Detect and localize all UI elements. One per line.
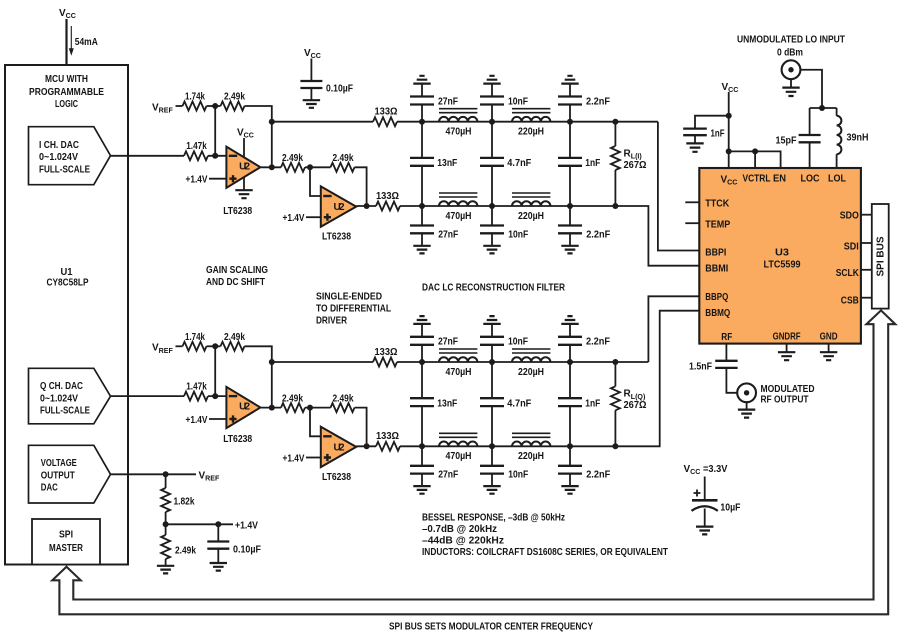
svg-text:LT6238: LT6238: [223, 206, 252, 217]
svg-text:2.49k: 2.49k: [175, 546, 196, 557]
svg-text:I CH. DAC: I CH. DAC: [39, 140, 79, 151]
wire node to 1.82k: [165, 474, 167, 488]
node junction 1.74k/2.49k: [212, 103, 218, 109]
svg-text:SINGLE-ENDED: SINGLE-ENDED: [316, 292, 382, 303]
svg-text:LOGIC: LOGIC: [55, 99, 78, 110]
svg-text:RF OUTPUT: RF OUTPUT: [761, 394, 809, 405]
VOLTAGE OUTPUT DAC tag (pentagon): [29, 445, 111, 503]
svg-text:RF: RF: [721, 332, 732, 343]
svg-text:U3: U3: [775, 248, 789, 259]
SPI bus arrow (SPI MASTER to SPI BUS connector): [52, 310, 895, 614]
svg-text:SDO: SDO: [840, 210, 859, 221]
ground above 10nF cap (I col 492): [483, 76, 500, 84]
node on + rail: [567, 119, 573, 125]
svg-text:U1: U1: [61, 267, 73, 278]
wire feedback to op2 output: [355, 167, 367, 206]
svg-text:1.47k: 1.47k: [186, 141, 207, 152]
wire ground to cap: [569, 84, 571, 97]
wire VCC to op-amp: [243, 138, 245, 161]
resistor 1.74k (Q): [183, 342, 207, 351]
wire 2.49k to output column: [245, 106, 272, 122]
wire I DAC tag to 1.47k: [111, 155, 185, 157]
wire VCC pin up: [728, 92, 730, 168]
pin stub SDO: [861, 214, 872, 216]
ground above 27nF cap (Q col 422): [413, 316, 430, 324]
wire 1.47k to op1 minus input: [208, 395, 226, 397]
resistor 2.49k (divider): [161, 535, 170, 559]
svg-text:27nF: 27nF: [438, 470, 458, 481]
pin stub SDI: [861, 242, 872, 244]
node on - rail: [567, 203, 573, 209]
wire cap to + rail: [491, 105, 493, 122]
wire cap to ground: [421, 474, 423, 486]
node +1.4V: [163, 521, 169, 527]
wire cap to + rail: [421, 345, 423, 362]
svg-text:LOL: LOL: [828, 174, 846, 185]
wire Q- rail to BBMQ: [615, 311, 699, 447]
node VREF: [163, 471, 169, 477]
wire Q+ rail to BBPQ: [648, 296, 699, 362]
resistor 2.49k input (Q stage2): [281, 403, 305, 412]
node on + rail: [489, 119, 495, 125]
wire VREF to R 1.74k: [176, 345, 183, 347]
wire cap to ground: [217, 549, 219, 563]
ground (GNDRF): [778, 352, 795, 360]
svg-text:VCC =3.3V: VCC =3.3V: [684, 464, 728, 476]
wire op2 output to 133R: [356, 205, 376, 207]
svg-text:BBMI: BBMI: [705, 264, 728, 275]
inductor 470uH (I - rail): [439, 201, 477, 206]
svg-text:–44dB @ 220kHz: –44dB @ 220kHz: [422, 536, 504, 547]
svg-text:0~1.024V: 0~1.024V: [40, 394, 78, 405]
wire op2 output to 133R: [356, 445, 376, 447]
capacitor 10nF (bottom, Q col 492): [491, 446, 493, 466]
wire +1.4V to op2 plus input: [306, 457, 321, 459]
svg-text:EN: EN: [773, 174, 786, 185]
ground above 2.2nF cap (Q col 570): [561, 316, 578, 324]
svg-text:54mA: 54mA: [75, 37, 98, 48]
capacitor 0.10uF bypass: [300, 81, 322, 88]
svg-text:SDI: SDI: [844, 241, 859, 252]
capacitor 10nF (top, I col 492): [480, 97, 504, 105]
wire ground to cap: [491, 324, 493, 337]
svg-text:0~1.024V: 0~1.024V: [39, 152, 78, 163]
wire junction down to op1 inverting input: [214, 106, 216, 156]
capacitor 27nF (bottom, Q col 422): [421, 446, 423, 466]
pin stub TEMP: [685, 222, 699, 224]
wire 1.74k to 2.49k: [207, 345, 221, 347]
wire 2.49k to output column: [245, 346, 272, 362]
wire Q DAC tag to 1.47k: [111, 395, 185, 397]
ground below 10nF cap: [483, 246, 500, 254]
svg-text:133Ω: 133Ω: [375, 347, 398, 358]
node on + rail: [419, 359, 425, 365]
wire +1.4V to op1 plus input: [209, 418, 226, 420]
wire cap to ground: [704, 509, 706, 527]
svg-text:BBMQ: BBMQ: [705, 308, 730, 319]
wire VCC to 10uF cap: [704, 477, 706, 500]
svg-text:DAC LC RECONSTRUCTION FILTER: DAC LC RECONSTRUCTION FILTER: [422, 283, 566, 294]
svg-text:AND DC SHIFT: AND DC SHIFT: [206, 277, 265, 288]
svg-text:267Ω: 267Ω: [624, 400, 647, 411]
wire +1.4V node right: [166, 523, 233, 525]
svg-text:+1.4V: +1.4V: [235, 521, 258, 532]
svg-text:220µH: 220µH: [518, 127, 544, 138]
svg-text:SPI BUS: SPI BUS: [876, 236, 887, 276]
resistor 2.49k input (I stage2): [281, 163, 305, 172]
wire to feedback 2.49k: [305, 166, 331, 168]
node on + rail: [567, 359, 573, 365]
wire VCTRL pin: [754, 151, 756, 168]
wire node to 1nF cap: [695, 116, 729, 129]
svg-text:LTC5599: LTC5599: [764, 260, 801, 271]
wire cap to + rail: [569, 345, 571, 362]
svg-text:+1.4V: +1.4V: [186, 415, 208, 426]
capacitor 13nF (mid, Q col 422): [421, 362, 423, 398]
wire ground to cap: [569, 324, 571, 337]
resistor 1.47k (Q): [184, 392, 208, 401]
svg-text:133Ω: 133Ω: [375, 107, 398, 118]
op-amp U2 (I stage 2) LT6238: [321, 186, 356, 226]
resistor 1.82k: [161, 488, 170, 512]
ground (RF coax): [738, 410, 755, 418]
svg-text:2.2nF: 2.2nF: [586, 337, 610, 348]
svg-text:+1.4V: +1.4V: [186, 175, 208, 186]
svg-text:470µH: 470µH: [446, 367, 472, 378]
svg-text:2.49k: 2.49k: [282, 153, 303, 164]
wire tie to VCTRL and EN: [729, 151, 781, 168]
MCU U1 block outline: [5, 65, 128, 565]
wire RF coax to ground: [746, 402, 748, 409]
svg-text:DRIVER: DRIVER: [316, 316, 348, 327]
capacitor 4.7nF (mid, I col 492): [491, 122, 493, 158]
node op2 output: [364, 203, 370, 209]
wire - rail through filter (Q): [400, 445, 615, 447]
wire ground to cap: [491, 84, 493, 97]
wire cap to ground: [569, 233, 571, 245]
capacitor 13nF (mid, I col 422): [421, 122, 423, 158]
svg-text:BBPI: BBPI: [705, 248, 726, 259]
node LO match: [819, 105, 825, 111]
resistor 133R (I - rail): [376, 202, 400, 211]
svg-text:U2: U2: [334, 202, 345, 213]
coax connector RF output: [737, 383, 756, 402]
capacitor 2.2nF (top, I col 570): [558, 97, 582, 105]
capacitor 10nF (bottom, I col 492): [491, 206, 493, 226]
wire feedback to op2 output: [355, 408, 367, 447]
inductor 470uH (I + rail): [439, 117, 477, 122]
svg-text:27nF: 27nF: [438, 337, 458, 348]
wire I+ rail to BBPI: [658, 122, 699, 251]
node on - rail: [419, 203, 425, 209]
svg-text:GAIN SCALING: GAIN SCALING: [206, 265, 268, 276]
resistor RL(Q) 267R load: [612, 359, 618, 365]
resistor 2.49k feedback (Q stage1): [221, 342, 245, 351]
wire ground to cap: [421, 84, 423, 97]
svg-text:0 dBm: 0 dBm: [777, 47, 803, 58]
svg-text:2.49k: 2.49k: [333, 153, 354, 164]
inductor 39nH: [837, 116, 842, 154]
svg-text:27nF: 27nF: [438, 96, 458, 107]
capacitor 10nF (top, Q col 492): [480, 337, 504, 345]
wire cap to ground: [491, 474, 493, 486]
ground above 10nF cap (Q col 492): [483, 316, 500, 324]
svg-text:FULL-SCALE: FULL-SCALE: [39, 165, 90, 176]
svg-text:VCTRL: VCTRL: [743, 174, 771, 185]
svg-text:220µH: 220µH: [518, 367, 544, 378]
op-amp U2 (Q stage 2) LT6238: [321, 427, 356, 467]
wire 15pF to LOC pin: [809, 142, 811, 168]
svg-text:DAC: DAC: [41, 482, 58, 493]
node VCC/VCTRL/EN tie: [726, 148, 732, 154]
node on + rail: [489, 359, 495, 365]
resistor 2.49k feedback (I stage2): [331, 163, 355, 172]
node stage2 inverting junction: [307, 405, 313, 411]
wire column to op-amp output: [271, 122, 273, 168]
ground (+1.4V bypass): [210, 563, 227, 571]
svg-text:4.7nF: 4.7nF: [507, 158, 531, 169]
capacitor 2.2nF (bottom, I col 570): [569, 206, 571, 226]
svg-text:SPI BUS SETS MODULATOR CENTER: SPI BUS SETS MODULATOR CENTER FREQUENCY: [389, 622, 593, 633]
svg-text:10nF: 10nF: [508, 229, 528, 240]
svg-text:U2: U2: [334, 443, 345, 454]
svg-text:CSB: CSB: [841, 296, 859, 307]
inductor 220uH (I - rail): [512, 201, 550, 206]
node on - rail: [489, 443, 495, 449]
ground (divider): [157, 566, 174, 574]
svg-text:LT6238: LT6238: [322, 232, 351, 243]
svg-text:15pF: 15pF: [776, 135, 797, 146]
capacitor 2.2nF (top, Q col 570): [558, 337, 582, 345]
wire VCC to bypass cap: [310, 59, 312, 81]
wire op1 output to stage2: [261, 166, 281, 168]
ground below 27nF cap: [413, 486, 430, 494]
wire I- rail to BBMI: [615, 206, 699, 266]
resistor 1.74k (I): [183, 102, 207, 111]
svg-text:470µH: 470µH: [446, 211, 472, 222]
svg-text:2.49k: 2.49k: [224, 92, 245, 103]
capacitor 4.7nF (mid, Q col 492): [491, 362, 493, 398]
svg-text:1nF: 1nF: [711, 128, 725, 139]
svg-text:4.7nF: 4.7nF: [507, 398, 531, 409]
svg-text:2.49k: 2.49k: [333, 393, 354, 404]
node op2 output: [364, 443, 370, 449]
wire column to op-amp output: [271, 362, 273, 408]
Q CH. DAC output tag (pentagon): [29, 368, 111, 424]
ground (1nF): [686, 143, 703, 151]
inductor 220uH (Q - rail): [512, 442, 550, 447]
wire voltage output DAC to VREF node: [111, 473, 197, 475]
node VCC/1nF: [726, 113, 732, 119]
svg-text:2.2nF: 2.2nF: [586, 96, 610, 107]
resistor 133R (Q + rail): [272, 361, 373, 363]
svg-text:1.47k: 1.47k: [186, 381, 207, 392]
ground below 10nF cap: [483, 486, 500, 494]
svg-text:10nF: 10nF: [508, 470, 528, 481]
resistor 133R (Q - rail): [376, 442, 400, 451]
ground (bypass cap): [303, 100, 320, 108]
svg-text:SCLK: SCLK: [836, 268, 860, 279]
SPI MASTER block: [32, 519, 100, 565]
wire LOC branch upper: [809, 108, 811, 135]
inductor 220uH (Q + rail): [512, 357, 550, 362]
svg-text:SPI: SPI: [59, 530, 73, 541]
wire + rail through filter (I): [397, 121, 658, 123]
wire 39nH to LOL pin: [836, 154, 838, 168]
svg-text:U2: U2: [239, 161, 250, 172]
wire 1.74k to 2.49k: [207, 105, 221, 107]
svg-text:2.49k: 2.49k: [224, 332, 245, 343]
svg-text:1.5nF: 1.5nF: [689, 361, 712, 372]
node stage2 inverting junction: [307, 164, 313, 170]
IC U3 LTC5599 body: [699, 168, 861, 344]
wire GNDRF to ground: [786, 344, 788, 352]
wire RF pin down: [725, 344, 727, 360]
I CH. DAC output tag (pentagon): [29, 127, 111, 185]
op-amp U2 (I stage 1) LT6238: [226, 147, 260, 188]
svg-text:–0.7dB @ 20kHz: –0.7dB @ 20kHz: [422, 524, 497, 535]
node on + rail: [419, 119, 425, 125]
capacitor 27nF (bottom, I col 422): [421, 206, 423, 226]
coax connector LO input: [782, 60, 801, 79]
svg-text:0.10µF: 0.10µF: [326, 84, 353, 95]
svg-text:2.49k: 2.49k: [282, 393, 303, 404]
ground above 27nF cap (I col 422): [413, 76, 430, 84]
svg-text:10nF: 10nF: [508, 96, 528, 107]
wire - rail through filter (I): [400, 205, 615, 207]
wire cap to + rail: [491, 345, 493, 362]
wire cap to ground: [491, 233, 493, 245]
current arrow 54mA: [70, 26, 72, 50]
capacitor 27nF (top, I col 422): [410, 97, 434, 105]
ground below 2.2nF cap: [561, 486, 578, 494]
capacitor 1.5nF coupling: [715, 361, 737, 368]
svg-text:2.2nF: 2.2nF: [586, 229, 610, 240]
polarity + mark: [694, 490, 701, 497]
svg-text:VOLTAGE: VOLTAGE: [41, 458, 77, 469]
svg-text:MASTER: MASTER: [49, 543, 84, 554]
wire 1.5nF to RF coax: [726, 368, 737, 393]
wire VCC into MCU: [65, 19, 67, 65]
node on - rail: [489, 203, 495, 209]
svg-text:470µH: 470µH: [446, 127, 472, 138]
wire VREF to R 1.74k: [176, 105, 183, 107]
svg-text:PROGRAMMABLE: PROGRAMMABLE: [29, 87, 104, 98]
SPI BUS connector: [872, 204, 889, 309]
wire junction down to op1 inverting input: [214, 346, 216, 396]
svg-text:FULL-SCALE: FULL-SCALE: [40, 406, 90, 417]
wire ground to cap: [421, 324, 423, 337]
svg-text:BBPQ: BBPQ: [705, 292, 728, 303]
svg-text:13nF: 13nF: [437, 158, 457, 169]
ground (op-amp U2): [235, 190, 252, 198]
svg-text:1nF: 1nF: [585, 158, 600, 169]
wire GND to ground: [828, 344, 830, 352]
wire 1.47k to op1 minus input: [208, 155, 226, 157]
pin stub SCLK: [861, 269, 872, 271]
svg-text:U2: U2: [239, 402, 250, 413]
svg-text:2.2nF: 2.2nF: [586, 470, 610, 481]
pin stub TTCK: [685, 201, 699, 203]
svg-text:GNDRF: GNDRF: [773, 332, 801, 343]
svg-text:Q CH. DAC: Q CH. DAC: [40, 381, 83, 392]
capacitor 1nF (mid, I col 570): [569, 122, 571, 158]
wire cap to + rail: [421, 105, 423, 122]
wire +1.4V to op1 plus input: [209, 178, 226, 180]
capacitor 10uF (polarized): [692, 499, 718, 502]
ground below 2.2nF cap: [561, 246, 578, 254]
svg-text:220µH: 220µH: [518, 211, 544, 222]
resistor 2.49k feedback (I stage1): [221, 102, 245, 111]
capacitor 27nF (top, Q col 422): [410, 337, 434, 345]
ground (LO coax): [782, 88, 799, 96]
node on - rail: [419, 443, 425, 449]
capacitor 0.10uF (+1.4V bypass): [207, 542, 229, 549]
node on + rail: [269, 359, 275, 365]
wire junction to op2 minus input: [310, 408, 321, 437]
svg-text:UNMODULATED LO INPUT: UNMODULATED LO INPUT: [737, 35, 845, 46]
wire cap to ground: [421, 233, 423, 245]
wire 1nF to ground: [694, 135, 696, 143]
svg-text:10nF: 10nF: [508, 337, 528, 348]
svg-text:LOC: LOC: [801, 174, 820, 185]
svg-text:1nF: 1nF: [585, 398, 600, 409]
wire cap to + rail: [569, 105, 571, 122]
svg-text:LT6238: LT6238: [322, 472, 351, 483]
wire coax to LO matching node: [800, 70, 822, 108]
wire cap to ground: [310, 88, 312, 100]
capacitor 1nF (mid, Q col 570): [569, 362, 571, 398]
wire op1 output to stage2: [261, 407, 281, 409]
wire coax to ground: [790, 79, 792, 87]
svg-text:220µH: 220µH: [518, 451, 544, 462]
svg-text:267Ω: 267Ω: [624, 160, 647, 171]
svg-text:27nF: 27nF: [438, 229, 458, 240]
inductor 220uH (I + rail): [512, 117, 550, 122]
capacitor 15pF: [799, 135, 821, 142]
svg-text:TEMP: TEMP: [705, 220, 730, 231]
ground (GND): [820, 352, 837, 360]
svg-text:39nH: 39nH: [847, 132, 869, 143]
svg-text:TO DIFFERENTIAL: TO DIFFERENTIAL: [316, 304, 391, 315]
svg-text:133Ω: 133Ω: [376, 431, 399, 442]
resistor RL(I) 267R load: [612, 119, 618, 125]
capacitor 1nF: [683, 129, 707, 136]
svg-text:+1.4V: +1.4V: [283, 213, 305, 224]
wire +1.4V node to 0.10uF: [217, 524, 219, 540]
ground above 2.2nF cap (I col 570): [561, 76, 578, 84]
wire +1.4V to op2 plus input: [306, 216, 321, 218]
inductor 470uH (Q + rail): [439, 357, 477, 362]
svg-text:0.10µF: 0.10µF: [233, 545, 261, 556]
pin stub CSB: [861, 297, 872, 299]
node on - rail: [567, 443, 573, 449]
svg-text:INDUCTORS: COILCRAFT DS1608C S: INDUCTORS: COILCRAFT DS1608C SERIES, OR …: [422, 547, 668, 558]
svg-text:LT6238: LT6238: [223, 434, 252, 445]
svg-text:CY8C58LP: CY8C58LP: [47, 277, 89, 288]
wire 1.82k to +1.4V node: [165, 512, 167, 524]
svg-text:1.82k: 1.82k: [174, 497, 195, 508]
node on + rail: [269, 119, 275, 125]
wire junction to op2 minus input: [310, 167, 321, 196]
svg-text:13nF: 13nF: [437, 398, 457, 409]
resistor 1.47k (I): [184, 151, 208, 160]
inductor 470uH (Q - rail): [439, 441, 477, 446]
svg-text:1.74k: 1.74k: [185, 92, 205, 103]
resistor 133R (I + rail): [272, 121, 373, 123]
capacitor 2.2nF (bottom, Q col 570): [569, 446, 571, 466]
node junction 1.74k/2.49k: [212, 343, 218, 349]
